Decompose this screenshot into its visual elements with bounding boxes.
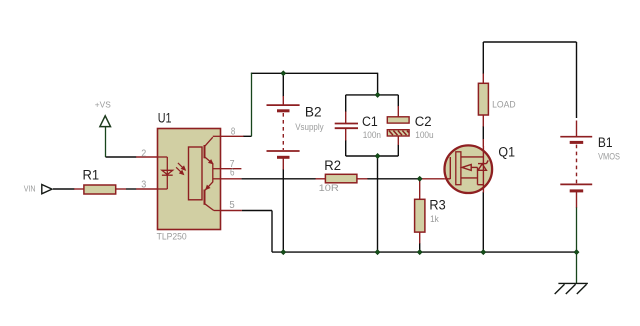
svg-text:Vsupply: Vsupply (295, 122, 324, 133)
svg-text:R3: R3 (429, 198, 445, 213)
svg-text:6: 6 (230, 168, 235, 179)
svg-text:+VS: +VS (95, 100, 111, 110)
svg-text:U1: U1 (158, 111, 172, 126)
svg-text:100n: 100n (363, 130, 381, 141)
svg-text:10R: 10R (319, 183, 339, 194)
svg-text:5: 5 (229, 200, 235, 211)
svg-text:1k: 1k (430, 214, 439, 225)
svg-text:100u: 100u (415, 130, 434, 141)
svg-text:LOAD: LOAD (492, 99, 516, 110)
svg-text:3: 3 (141, 180, 146, 191)
svg-text:Q1: Q1 (498, 144, 515, 159)
svg-text:VMOS: VMOS (598, 152, 620, 163)
svg-text:B1: B1 (598, 135, 613, 150)
svg-text:C1: C1 (362, 114, 378, 129)
svg-text:R2: R2 (324, 158, 341, 173)
svg-text:C2: C2 (415, 114, 432, 129)
svg-text:VIN: VIN (24, 184, 36, 194)
svg-text:R1: R1 (83, 167, 100, 182)
svg-text:TLP250: TLP250 (157, 232, 187, 243)
svg-text:8: 8 (231, 126, 236, 137)
svg-text:B2: B2 (305, 104, 322, 119)
svg-text:2: 2 (141, 148, 146, 159)
